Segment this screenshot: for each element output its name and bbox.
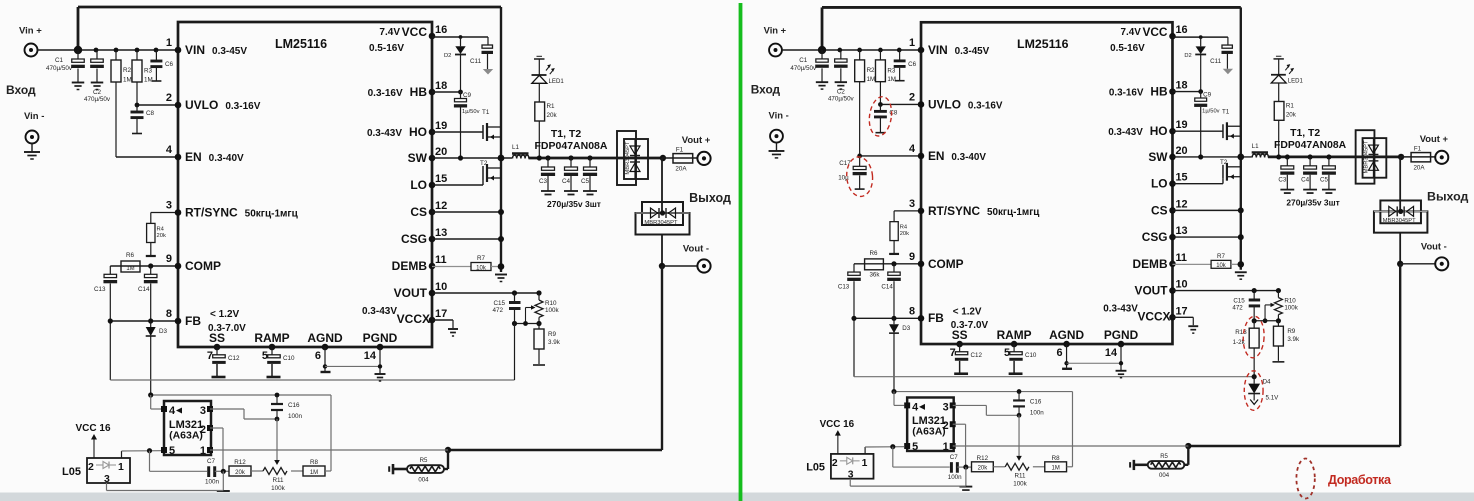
svg-text:R13: R13 <box>1235 329 1247 336</box>
svg-text:5.1V: 5.1V <box>1266 394 1280 401</box>
svg-text:D4: D4 <box>1263 379 1271 386</box>
svg-text:1M: 1M <box>126 266 134 272</box>
svg-text:C17: C17 <box>839 160 851 167</box>
svg-text:Доработка: Доработка <box>1328 473 1392 487</box>
svg-text:36k: 36k <box>869 272 880 279</box>
